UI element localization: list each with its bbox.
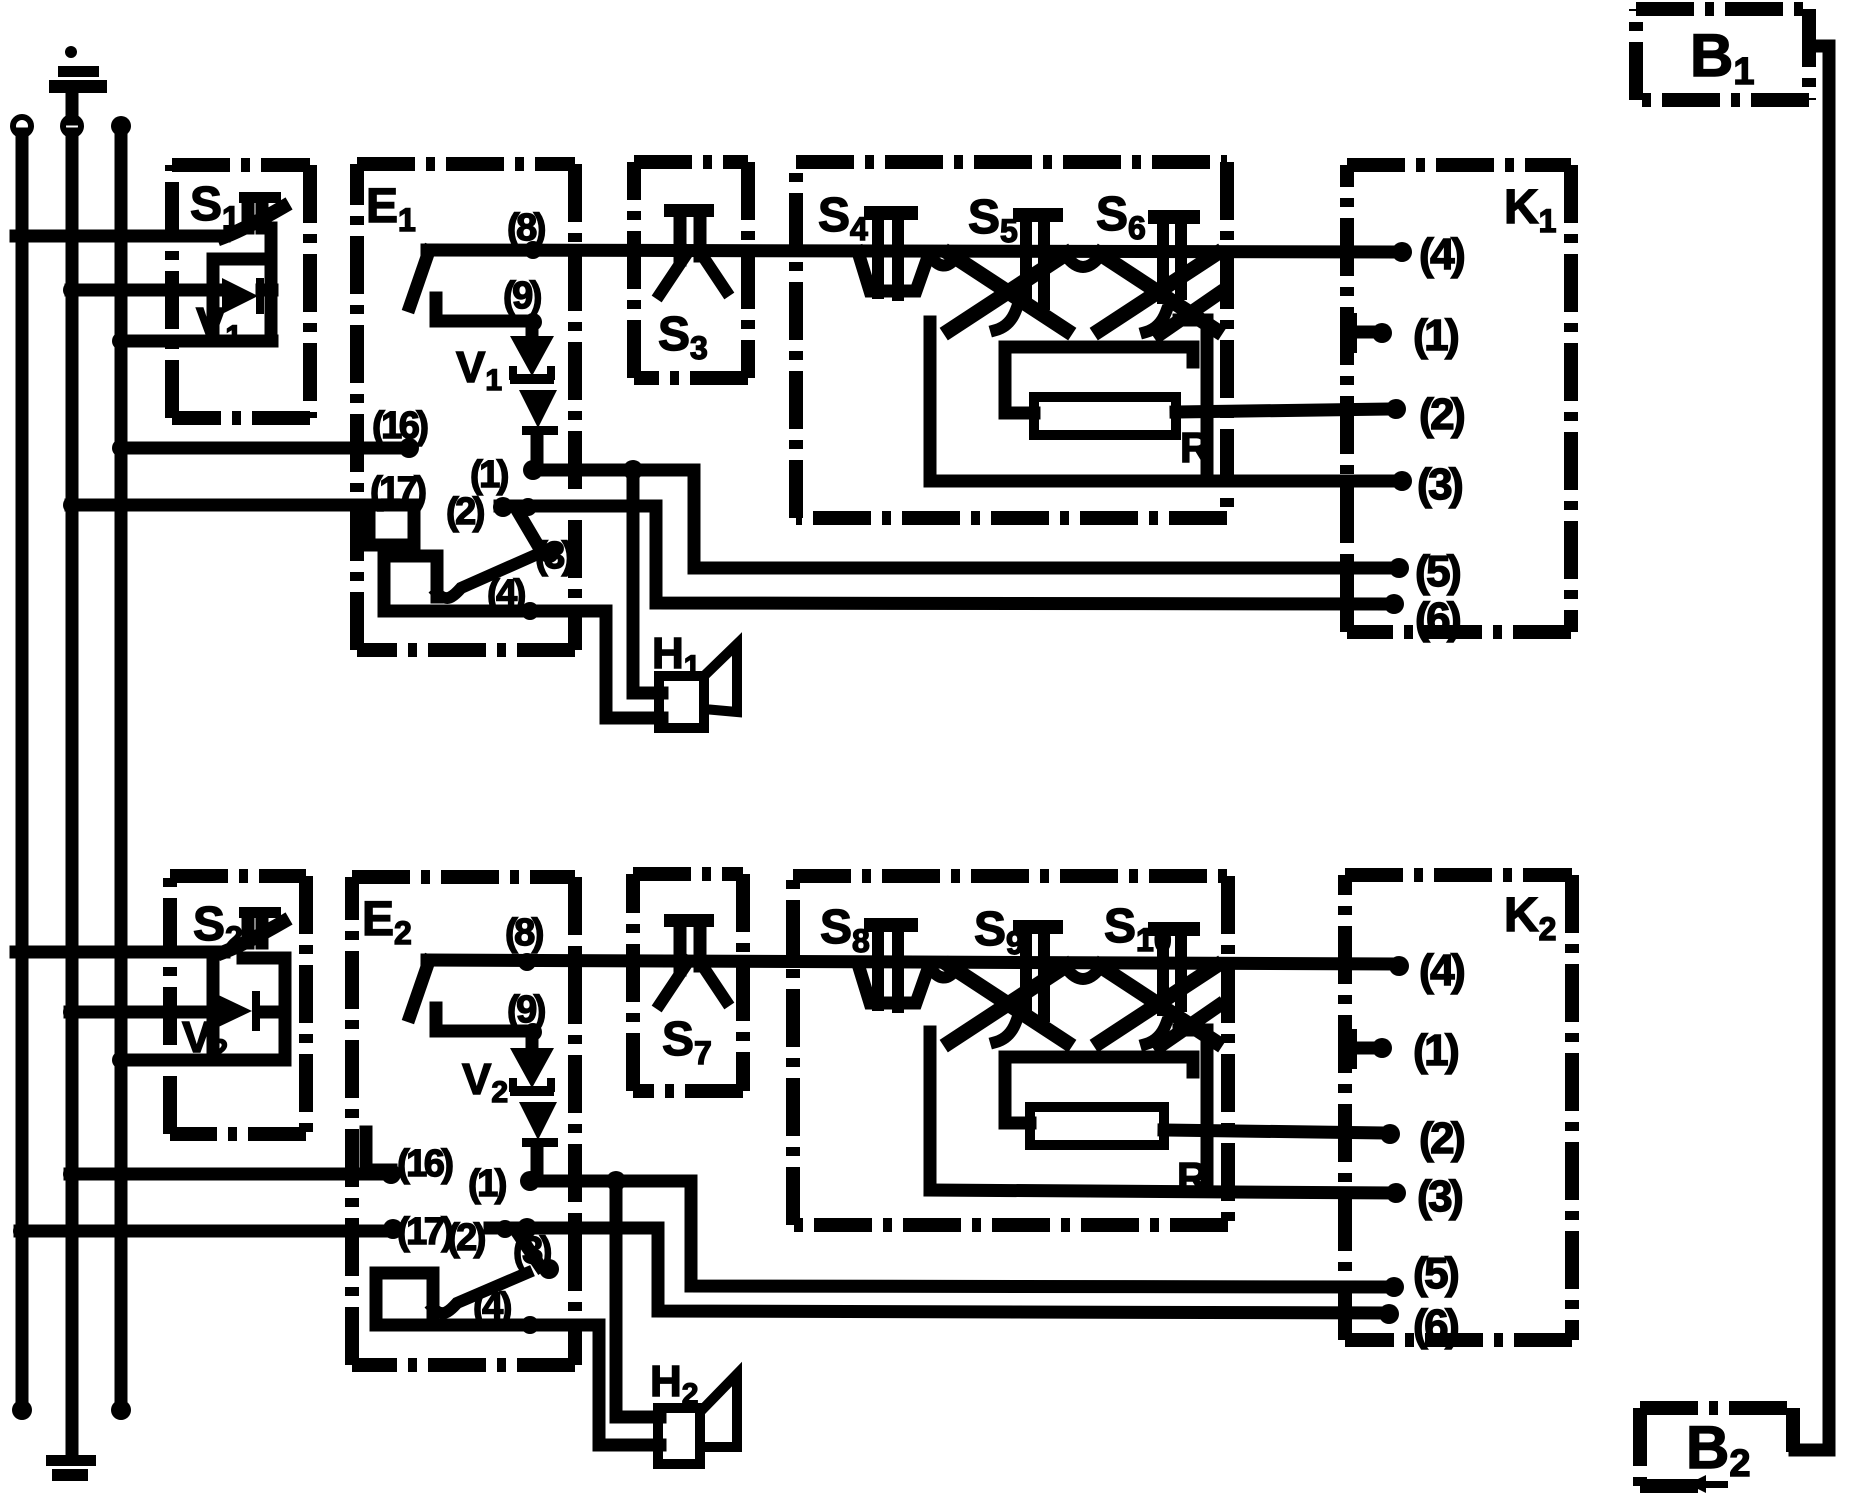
svg-text:(5): (5) [1415,547,1460,596]
svg-text:(4): (4) [473,1286,511,1328]
svg-text:(2): (2) [1419,390,1464,439]
svg-text:(2): (2) [1419,1114,1464,1163]
svg-text:(3): (3) [1417,1172,1462,1221]
svg-text:(4): (4) [1419,230,1464,279]
svg-text:R: R [1180,424,1210,471]
svg-text:(4): (4) [487,573,525,615]
svg-text:(9): (9) [507,989,545,1031]
svg-text:(3): (3) [513,1230,551,1272]
svg-text:R: R [1177,1154,1207,1201]
svg-text:(17): (17) [370,470,425,512]
svg-text:(17): (17) [397,1211,452,1253]
svg-text:(8): (8) [507,207,545,249]
svg-text:(6): (6) [1415,594,1460,643]
svg-text:(2): (2) [447,1217,485,1259]
svg-text:(1): (1) [1413,1026,1458,1075]
svg-text:(16): (16) [372,405,427,447]
svg-text:(16): (16) [397,1143,452,1185]
svg-text:(8): (8) [505,912,543,954]
svg-text:(1): (1) [470,454,508,496]
svg-text:(3): (3) [1417,460,1462,509]
svg-text:(3): (3) [535,535,573,577]
svg-text:(5): (5) [1413,1249,1458,1298]
svg-text:(9): (9) [503,275,541,317]
svg-text:(2): (2) [446,491,484,533]
svg-text:(6): (6) [1413,1301,1458,1350]
svg-text:(1): (1) [468,1163,506,1205]
svg-text:(4): (4) [1419,946,1464,995]
svg-text:(1): (1) [1413,311,1458,360]
